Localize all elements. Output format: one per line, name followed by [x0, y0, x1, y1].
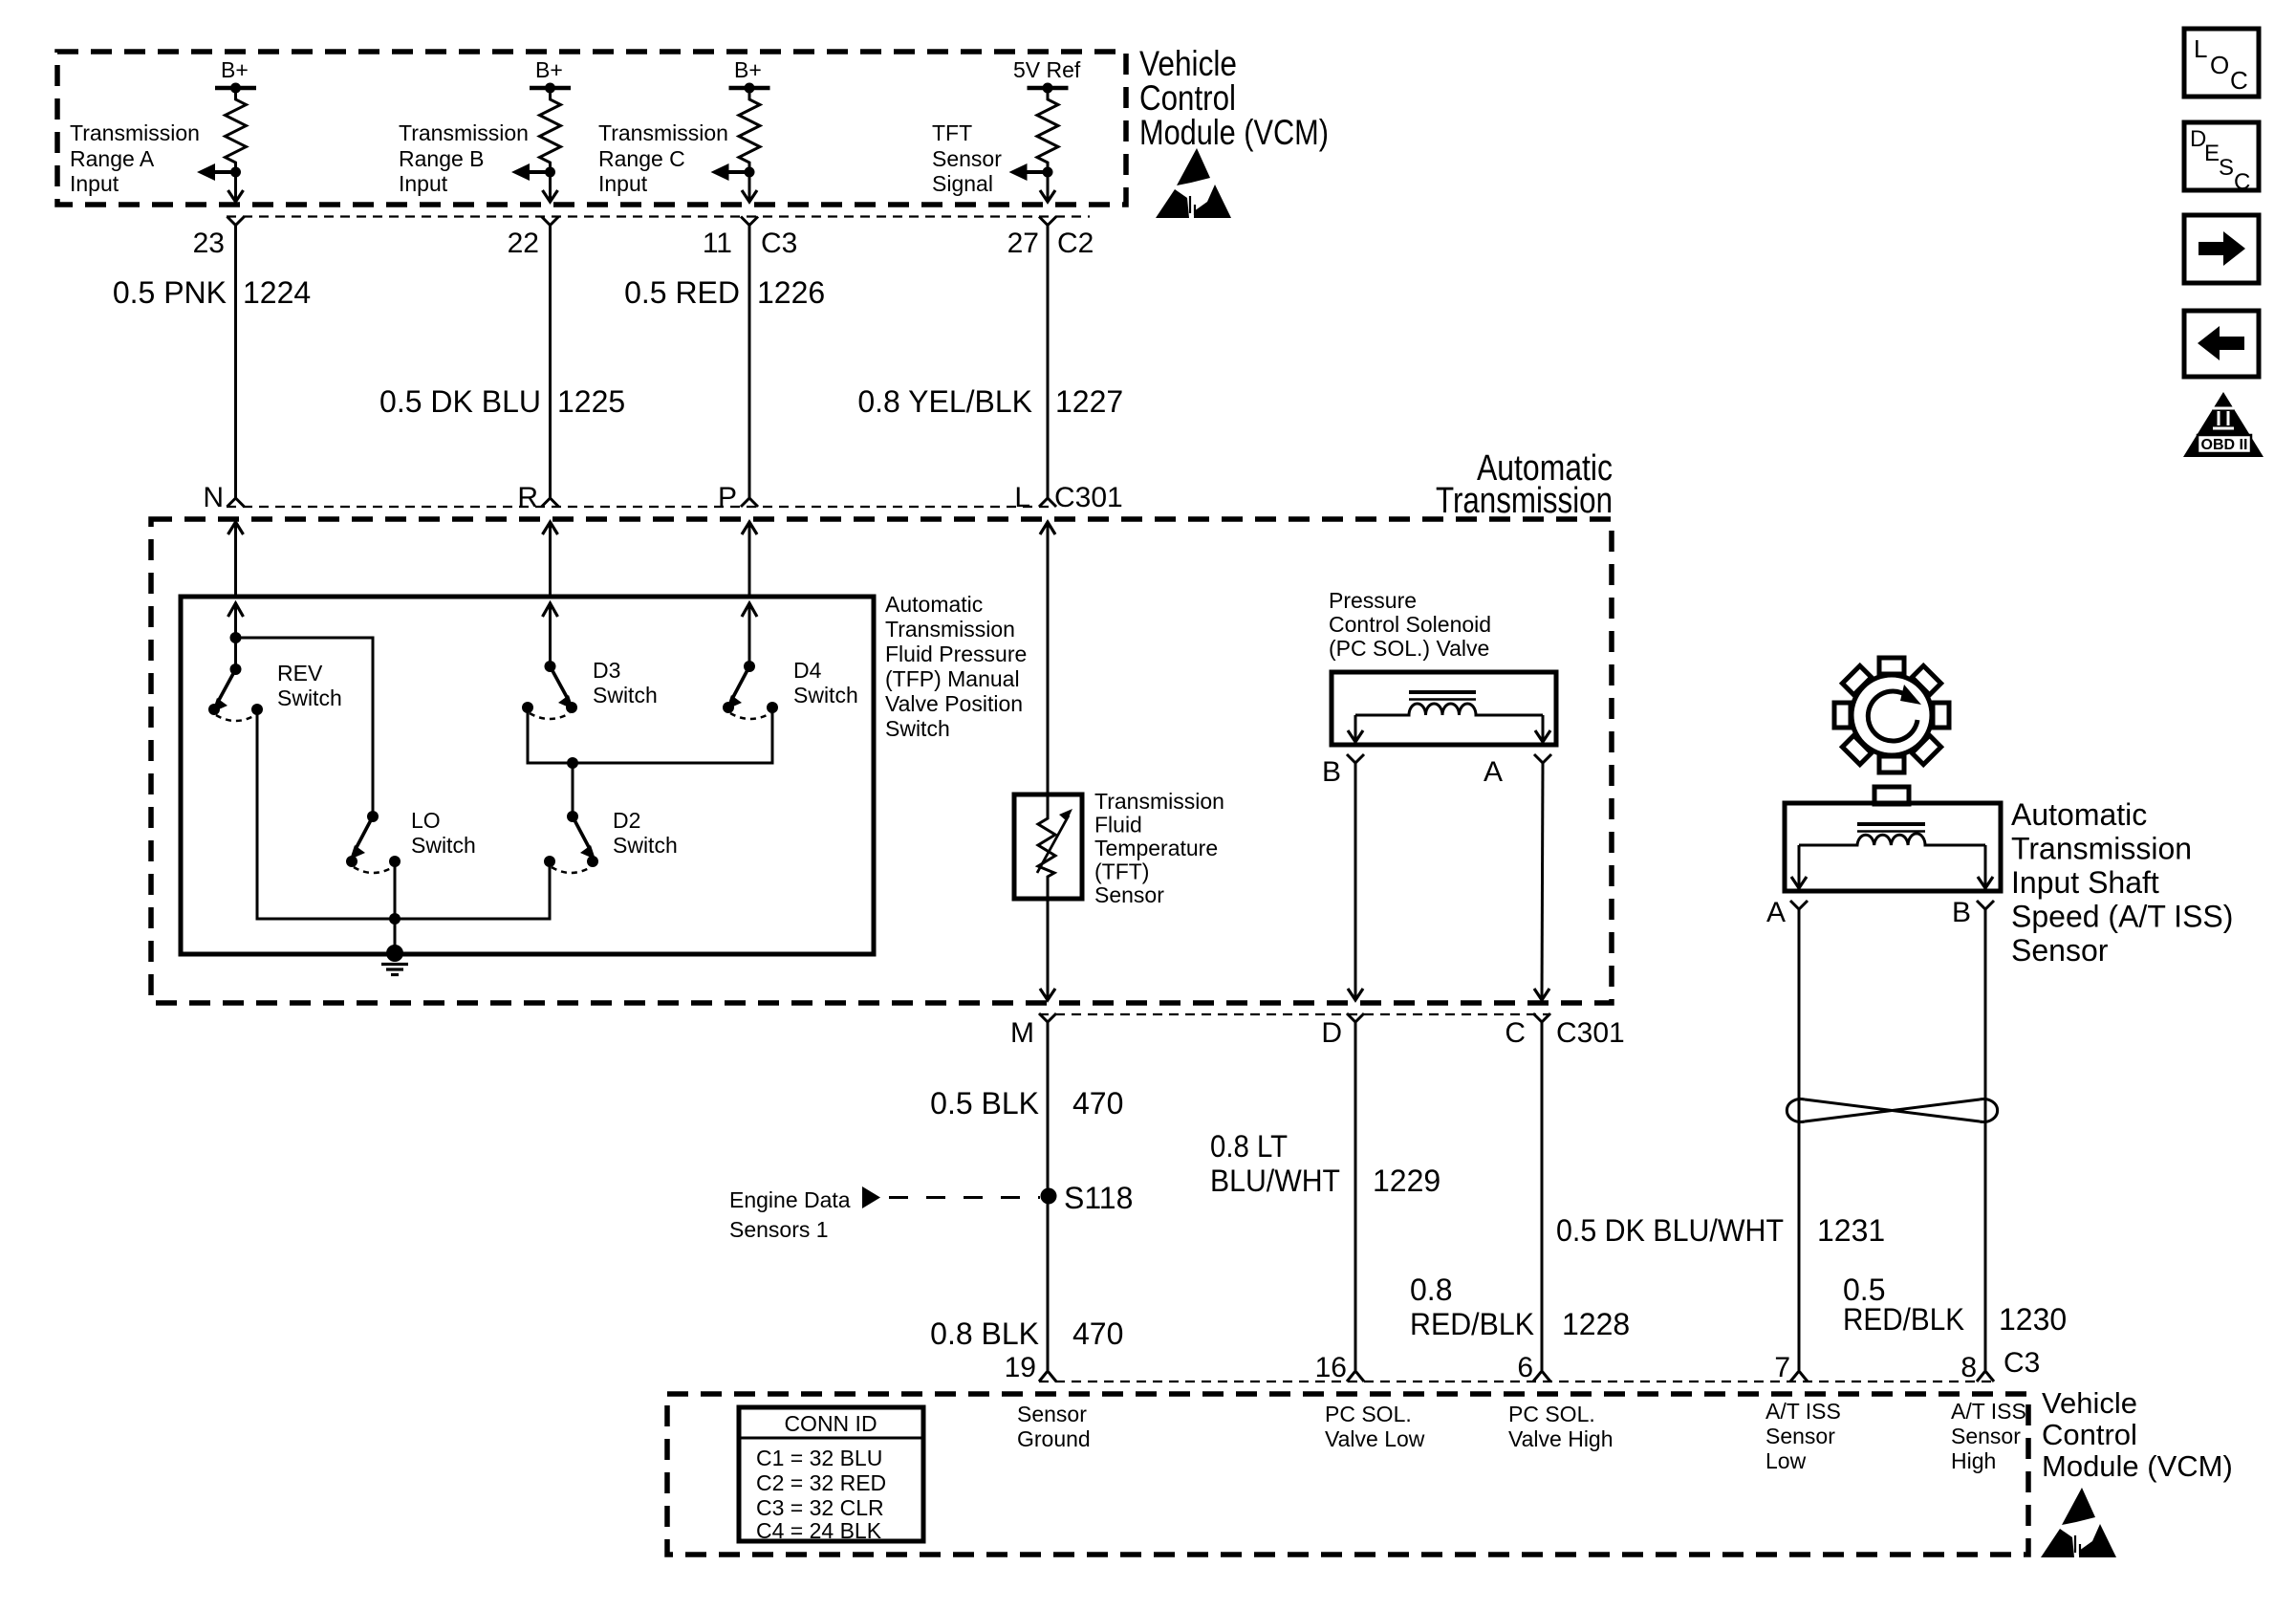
pin R	[517, 482, 538, 513]
svg-text:Temperature: Temperature	[1094, 836, 1218, 860]
svg-text:(PC SOL.) Valve: (PC SOL.) Valve	[1329, 636, 1489, 661]
wire pin B drop (down arrow)	[1348, 715, 1363, 742]
label Automatic Transmission Input Shaft Speed (A/T ISS) Sensor	[2011, 797, 2233, 968]
connector bracket 7	[1790, 1371, 1808, 1382]
svg-text:7: 7	[1774, 1352, 1790, 1383]
pin 8 / C3	[1960, 1347, 2040, 1383]
wire (LO contact to ground)	[394, 861, 397, 953]
svg-text:22: 22	[508, 228, 539, 259]
svg-text:E: E	[2204, 141, 2220, 166]
svg-text:Input: Input	[70, 171, 119, 196]
svg-text:L: L	[2194, 34, 2207, 63]
svg-text:27: 27	[1007, 228, 1039, 259]
svg-text:B: B	[1322, 756, 1341, 788]
svg-text:Switch: Switch	[885, 716, 950, 741]
svg-text:RED/BLK: RED/BLK	[1410, 1307, 1534, 1341]
wire (junction to LO switch)	[236, 638, 374, 816]
label 0.8 BLK 470	[930, 1316, 1123, 1351]
wire (TFT sensor signal arrow, left)	[1009, 163, 1049, 181]
svg-text:5V Ref: 5V Ref	[1013, 57, 1081, 82]
svg-text:Valve Low: Valve Low	[1325, 1426, 1425, 1451]
label 0.5 RED 1226	[624, 275, 825, 310]
svg-text:S: S	[2219, 155, 2234, 181]
svg-text:CONN ID: CONN ID	[784, 1411, 877, 1436]
wire D4 P inside TFP box (up arrow at box edge)	[742, 602, 757, 666]
wire 1228 (PC SOL A to C301 C, down arrow)	[1534, 763, 1549, 1000]
switch LO	[346, 811, 401, 873]
svg-text:0.8 LT: 0.8 LT	[1210, 1129, 1288, 1164]
wire 1225 (pin 22 to C301 R)	[549, 226, 552, 499]
svg-text:Signal: Signal	[932, 171, 993, 196]
label 0.8 YEL/BLK 1227	[857, 384, 1123, 419]
svg-text:Sensors 1: Sensors 1	[729, 1217, 829, 1242]
svg-text:Module (VCM): Module (VCM)	[1139, 113, 1329, 152]
node junction (R1 output)	[230, 167, 241, 178]
svg-text:Ground: Ground	[1017, 1426, 1091, 1451]
pin 11 / C3	[703, 228, 798, 259]
connector bracket R	[542, 498, 559, 507]
svg-text:O: O	[2210, 51, 2229, 79]
svg-text:0.8: 0.8	[1410, 1273, 1452, 1307]
svg-text:470: 470	[1072, 1316, 1123, 1351]
label Pressure Control Solenoid (PC SOL.) Valve	[1329, 588, 1491, 661]
wire Engine Data (arrow + dashed)	[862, 1186, 1040, 1208]
svg-text:Switch: Switch	[613, 833, 678, 858]
wire pin A drop (down arrow)	[1791, 845, 1807, 888]
svg-text:Switch: Switch	[411, 833, 476, 858]
connector bracket D	[1347, 1013, 1364, 1370]
label Transmission Range A Input	[70, 120, 200, 196]
svg-text:REV: REV	[277, 661, 323, 685]
icon left-arrow box	[2184, 311, 2259, 377]
svg-text:C2 = 32 RED: C2 = 32 RED	[756, 1470, 886, 1495]
wire R into AT box (up arrow)	[543, 521, 558, 597]
connector line bottom VCM (dotted)	[1039, 1381, 1998, 1382]
node junction (R4 output)	[1043, 167, 1053, 178]
pin D	[1321, 1017, 1342, 1049]
svg-text:Pressure: Pressure	[1329, 588, 1417, 613]
table CONN ID	[739, 1407, 923, 1543]
svg-text:Transmission: Transmission	[598, 120, 728, 145]
label Transmission Range C Input	[598, 120, 728, 196]
icon DESC box	[2184, 122, 2259, 195]
label D2 Switch	[613, 808, 678, 858]
wire (D2 contact to ground bus)	[395, 861, 550, 919]
svg-text:Automatic: Automatic	[885, 592, 983, 617]
icon LOC box	[2184, 29, 2259, 97]
svg-text:16: 16	[1315, 1352, 1347, 1383]
svg-text:PC SOL.: PC SOL.	[1325, 1402, 1412, 1426]
svg-text:Switch: Switch	[793, 683, 858, 707]
svg-text:Transmission: Transmission	[70, 120, 200, 145]
svg-text:Sensor: Sensor	[1765, 1424, 1835, 1448]
label 0.5 RED/BLK 1230	[1843, 1273, 2067, 1337]
module box VCM (top)	[57, 52, 1126, 205]
svg-text:11: 11	[703, 228, 732, 259]
svg-text:1228: 1228	[1562, 1307, 1630, 1341]
svg-text:LO: LO	[411, 808, 441, 833]
svg-text:Range C: Range C	[598, 146, 685, 171]
svg-text:Control Solenoid: Control Solenoid	[1329, 612, 1491, 637]
svg-text:R: R	[517, 482, 538, 513]
svg-text:S118: S118	[1064, 1181, 1133, 1215]
wire (REV contact to ground bus)	[257, 709, 395, 919]
connector bracket C	[1533, 1013, 1550, 1370]
svg-text:C: C	[2234, 169, 2250, 195]
wire 1227 (pin 27 to C301 L)	[1047, 226, 1050, 499]
connector bracket pin 23	[227, 217, 245, 226]
svg-text:0.8 BLK: 0.8 BLK	[930, 1316, 1039, 1351]
label PC SOL. Valve Low	[1325, 1402, 1425, 1451]
label 0.5 PNK 1224	[113, 275, 311, 310]
label Transmission Range B Input	[399, 120, 529, 196]
svg-text:Speed (A/T ISS): Speed (A/T ISS)	[2011, 900, 2233, 934]
svg-text:1230: 1230	[1999, 1302, 2067, 1337]
svg-text:A: A	[1766, 897, 1786, 928]
label Sensor Ground	[1017, 1402, 1091, 1451]
wire N inside TFP box (up arrow at box edge)	[228, 602, 244, 669]
svg-text:1224: 1224	[243, 275, 311, 310]
svg-text:C3 = 32 CLR: C3 = 32 CLR	[756, 1495, 884, 1520]
wire L into AT box (up arrow)	[1040, 521, 1055, 794]
svg-text:Module (VCM): Module (VCM)	[2042, 1449, 2233, 1483]
svg-text:1229: 1229	[1373, 1164, 1440, 1198]
svg-text:Valve High: Valve High	[1508, 1426, 1614, 1451]
svg-text:A/T ISS: A/T ISS	[1765, 1399, 1841, 1424]
pin 22	[508, 228, 539, 259]
svg-text:Transmission: Transmission	[1436, 481, 1613, 521]
connector bracket 19	[1039, 1371, 1056, 1382]
icon gear (A/T ISS reluctor)	[1834, 658, 1949, 772]
pin P	[718, 482, 737, 513]
connector bracket pin 27	[1039, 217, 1056, 226]
connector bracket B	[1347, 754, 1364, 763]
svg-text:M: M	[1010, 1017, 1034, 1049]
svg-text:N: N	[203, 482, 224, 513]
svg-text:C3: C3	[2004, 1347, 2040, 1379]
svg-text:(TFP) Manual: (TFP) Manual	[885, 666, 1020, 691]
switch D2	[544, 811, 598, 873]
wire 1230 (ISS B to pin 8)	[1984, 909, 1987, 1370]
resistor thermistor TFT (zigzag with arrow)	[1037, 794, 1072, 899]
pin 23	[193, 228, 225, 259]
icon OBD II triangle	[2183, 392, 2264, 457]
label LO Switch	[411, 808, 476, 858]
pin 27 / C2	[1007, 228, 1094, 259]
label A/T ISS Sensor High	[1951, 1399, 2026, 1473]
icon ESD warning (bottom VCM)	[2041, 1488, 2116, 1557]
label Transmission Fluid Temperature (TFT) Sensor	[1094, 789, 1224, 907]
svg-text:Input: Input	[598, 171, 648, 196]
svg-text:RED/BLK: RED/BLK	[1843, 1302, 1964, 1337]
wire pin A drop (down arrow)	[1535, 715, 1550, 742]
node junction (REV/LO tap)	[230, 632, 242, 643]
resistor R2 (Transmission Range B pull-up)	[540, 88, 561, 172]
wire 1224 (pin 23 to C301 N)	[234, 226, 237, 499]
svg-text:Low: Low	[1765, 1448, 1807, 1473]
svg-text:OBD II: OBD II	[2201, 437, 2248, 453]
switch D4	[723, 661, 778, 719]
wire (R1 to pin 23, down arrow)	[228, 172, 244, 202]
wire D3 R inside TFP box (up arrow at box edge)	[543, 602, 558, 666]
label Vehicle Control Module (VCM) top	[1139, 44, 1329, 152]
label Automatic Transmission (title)	[1436, 448, 1613, 521]
switch REV	[208, 664, 263, 721]
connector bracket N	[227, 498, 245, 507]
pin 7	[1774, 1352, 1790, 1383]
pin B (ISS)	[1952, 897, 1971, 928]
connector bracket 6	[1533, 1371, 1550, 1382]
svg-text:Sensor: Sensor	[1017, 1402, 1087, 1426]
wire (D4 contact to D2 junction)	[573, 707, 772, 763]
svg-text:(TFT): (TFT)	[1094, 859, 1149, 884]
svg-text:Sensor: Sensor	[1951, 1424, 2021, 1448]
module box VCM (bottom, dashed)	[667, 1394, 2028, 1555]
connector bracket 8	[1977, 1371, 1994, 1382]
svg-text:C301: C301	[1556, 1017, 1625, 1049]
svg-text:D3: D3	[593, 658, 620, 683]
svg-text:C301: C301	[1054, 482, 1123, 513]
svg-text:Control: Control	[1139, 78, 1236, 118]
pin 16	[1315, 1352, 1347, 1383]
label 0.8 RED/BLK 1228	[1410, 1273, 1630, 1341]
svg-text:6: 6	[1517, 1352, 1533, 1383]
component box PC SOL valve	[1332, 672, 1556, 745]
svg-text:Sensor: Sensor	[932, 146, 1002, 171]
svg-text:Input: Input	[399, 171, 448, 196]
svg-text:D2: D2	[613, 808, 640, 833]
svg-text:C2: C2	[1057, 228, 1094, 259]
pin A	[1484, 756, 1503, 788]
svg-text:BLU/WHT: BLU/WHT	[1210, 1164, 1340, 1198]
pin 19	[1005, 1352, 1036, 1383]
wire 1231 (ISS A to pin 7)	[1798, 909, 1801, 1370]
connector bracket pin 22	[542, 217, 559, 226]
twisted pair symbol	[1787, 1099, 1997, 1122]
node junction (ground bus)	[389, 913, 401, 925]
svg-text:D4: D4	[793, 658, 822, 683]
svg-text:C1 = 32 BLU: C1 = 32 BLU	[756, 1446, 882, 1470]
svg-text:A: A	[1484, 756, 1503, 788]
svg-text:0.5 BLK: 0.5 BLK	[930, 1086, 1039, 1120]
svg-text:Vehicle: Vehicle	[2042, 1386, 2137, 1420]
wire (R4 to pin 27, down arrow)	[1040, 172, 1055, 202]
wire (Range C input arrow, left)	[711, 163, 750, 181]
svg-text:Sensor: Sensor	[1094, 882, 1164, 907]
wire TFT to C301 M (down arrow)	[1040, 899, 1055, 1000]
svg-text:Transmission: Transmission	[885, 617, 1015, 642]
resistor R3 (Transmission Range C pull-up)	[739, 88, 760, 172]
connector bracket pin 11	[741, 217, 758, 226]
svg-text:Fluid Pressure: Fluid Pressure	[885, 642, 1027, 666]
svg-text:Transmission: Transmission	[399, 120, 529, 145]
svg-text:Automatic: Automatic	[2011, 797, 2147, 832]
svg-text:High: High	[1951, 1448, 1996, 1473]
wire (D3 contact to D2 junction)	[528, 707, 573, 763]
connector line C301 (top, dotted)	[227, 506, 1050, 508]
svg-text:Vehicle: Vehicle	[1139, 44, 1237, 83]
svg-text:C3: C3	[761, 228, 797, 259]
svg-text:B+: B+	[734, 57, 762, 82]
connector bracket A (ISS)	[1790, 901, 1808, 909]
label Vehicle Control Module (VCM) bottom	[2042, 1386, 2233, 1483]
component box TFP manual valve position switch	[181, 597, 874, 954]
node B+ (wire 1)	[215, 57, 256, 94]
label TFT Sensor Signal	[932, 120, 1002, 196]
label PC SOL. Valve High	[1508, 1402, 1614, 1451]
node B+ (wire 3)	[729, 57, 770, 94]
svg-text:D: D	[1321, 1017, 1342, 1049]
pin A (ISS)	[1766, 897, 1786, 928]
node B+ (wire 2)	[530, 57, 571, 94]
label 0.8 LT BLU/WHT 1229	[1210, 1129, 1440, 1198]
connector bracket A	[1534, 754, 1551, 763]
wire P into AT box (up arrow)	[742, 521, 757, 597]
svg-text:PC SOL.: PC SOL.	[1508, 1402, 1595, 1426]
inductor coil (PC SOL)	[1355, 692, 1543, 715]
label 0.5 DK BLU/WHT 1231	[1556, 1213, 1885, 1248]
wire (R2 to pin 22, down arrow)	[543, 172, 558, 202]
resistor R4 (TFT sensor pull-up)	[1037, 88, 1058, 172]
svg-text:Fluid: Fluid	[1094, 813, 1142, 838]
label Automatic Transmission Fluid Pressure (TFP) Manual Valve Position Switch	[885, 592, 1027, 741]
pin 6	[1517, 1352, 1533, 1383]
svg-text:1231: 1231	[1817, 1213, 1885, 1248]
resistor R1 (Transmission Range A pull-up)	[226, 88, 247, 172]
wire pin B drop (down arrow)	[1978, 845, 1993, 888]
svg-text:Range B: Range B	[399, 146, 485, 171]
node 5V Ref (wire 4)	[1013, 57, 1081, 94]
component ISS sensor tab	[1874, 787, 1909, 804]
wire 1229 (PC SOL B to C301 D, down arrow)	[1348, 763, 1363, 1000]
pin C / C301	[1505, 1017, 1624, 1049]
pin L / C301	[1014, 482, 1122, 513]
label Engine Data Sensors 1	[729, 1187, 851, 1242]
switch D3	[522, 661, 577, 719]
svg-text:TFT: TFT	[932, 120, 972, 145]
svg-text:0.5 RED: 0.5 RED	[624, 275, 740, 310]
svg-text:B: B	[1952, 897, 1971, 928]
connector bracket B (ISS)	[1977, 901, 1994, 909]
svg-text:A/T ISS: A/T ISS	[1951, 1399, 2026, 1424]
node junction (R3 output)	[745, 167, 755, 178]
svg-text:C: C	[2230, 66, 2248, 95]
svg-text:23: 23	[193, 228, 225, 259]
connector bracket 16	[1347, 1371, 1364, 1382]
svg-text:8: 8	[1960, 1352, 1977, 1383]
label 0.5 DK BLU 1225	[379, 384, 625, 419]
wire N into AT box (up arrow)	[228, 521, 244, 597]
wire (Range B input arrow, left)	[511, 163, 551, 181]
svg-text:470: 470	[1072, 1086, 1123, 1120]
pin M	[1010, 1017, 1034, 1049]
svg-text:19: 19	[1005, 1352, 1036, 1383]
pin B	[1322, 756, 1341, 788]
icon right-arrow box	[2184, 215, 2259, 283]
wire 1226 (pin 11 to C301 P)	[748, 226, 751, 499]
svg-text:0.5 DK BLU/WHT: 0.5 DK BLU/WHT	[1556, 1213, 1784, 1248]
svg-text:Sensor: Sensor	[2011, 933, 2109, 968]
pin N	[203, 482, 224, 513]
svg-text:Switch: Switch	[277, 685, 342, 710]
node junction (D3/D4 to D2)	[567, 757, 578, 769]
svg-text:Transmission: Transmission	[1094, 789, 1224, 814]
svg-text:1225: 1225	[557, 384, 625, 419]
svg-text:Range A: Range A	[70, 146, 155, 171]
svg-text:C4 = 24 BLK: C4 = 24 BLK	[756, 1518, 882, 1543]
label D3 Switch	[593, 658, 658, 707]
svg-text:1226: 1226	[757, 275, 825, 310]
wire (Range A input arrow, left)	[197, 163, 236, 181]
wire (junction to D2 pivot)	[572, 763, 574, 816]
inductor coil (A/T ISS)	[1799, 824, 1985, 845]
connector bracket L	[1039, 498, 1056, 507]
svg-text:L: L	[1014, 482, 1030, 513]
svg-text:1227: 1227	[1055, 384, 1123, 419]
component TFT sensor box	[1014, 794, 1082, 899]
node splice S118	[1041, 1181, 1134, 1215]
svg-text:Control: Control	[2042, 1418, 2137, 1451]
node junction (R2 output)	[545, 167, 555, 178]
label A/T ISS Sensor Low	[1765, 1399, 1841, 1473]
connector line C2/C3 (top VCM, dotted)	[227, 215, 1090, 217]
svg-text:Switch: Switch	[593, 683, 658, 707]
wire (R3 to pin 11, down arrow)	[742, 172, 757, 202]
svg-text:0.8 YEL/BLK: 0.8 YEL/BLK	[857, 384, 1032, 419]
svg-text:B+: B+	[535, 57, 563, 82]
svg-text:0.5 PNK: 0.5 PNK	[113, 275, 227, 310]
svg-text:Valve Position: Valve Position	[885, 691, 1023, 716]
connector bracket P	[741, 498, 758, 507]
svg-text:Engine Data: Engine Data	[729, 1187, 851, 1212]
connector line C301 (bottom, dotted)	[1039, 1013, 1549, 1015]
icon ESD warning (top VCM)	[1156, 148, 1231, 218]
svg-text:P: P	[718, 482, 737, 513]
label REV Switch	[277, 661, 342, 710]
svg-text:0.5 DK BLU: 0.5 DK BLU	[379, 384, 541, 419]
svg-text:Input Shaft: Input Shaft	[2011, 865, 2159, 900]
svg-text:B+: B+	[221, 57, 249, 82]
label 0.5 BLK 470	[930, 1086, 1123, 1120]
svg-text:C: C	[1505, 1017, 1526, 1049]
label D4 Switch	[793, 658, 858, 707]
component box A/T ISS sensor	[1785, 803, 2001, 891]
module box Automatic Transmission (dashed)	[151, 519, 1612, 1003]
svg-text:Transmission: Transmission	[2011, 832, 2192, 866]
connector bracket M	[1039, 1013, 1056, 1370]
ground (TFP switch)	[381, 945, 408, 975]
